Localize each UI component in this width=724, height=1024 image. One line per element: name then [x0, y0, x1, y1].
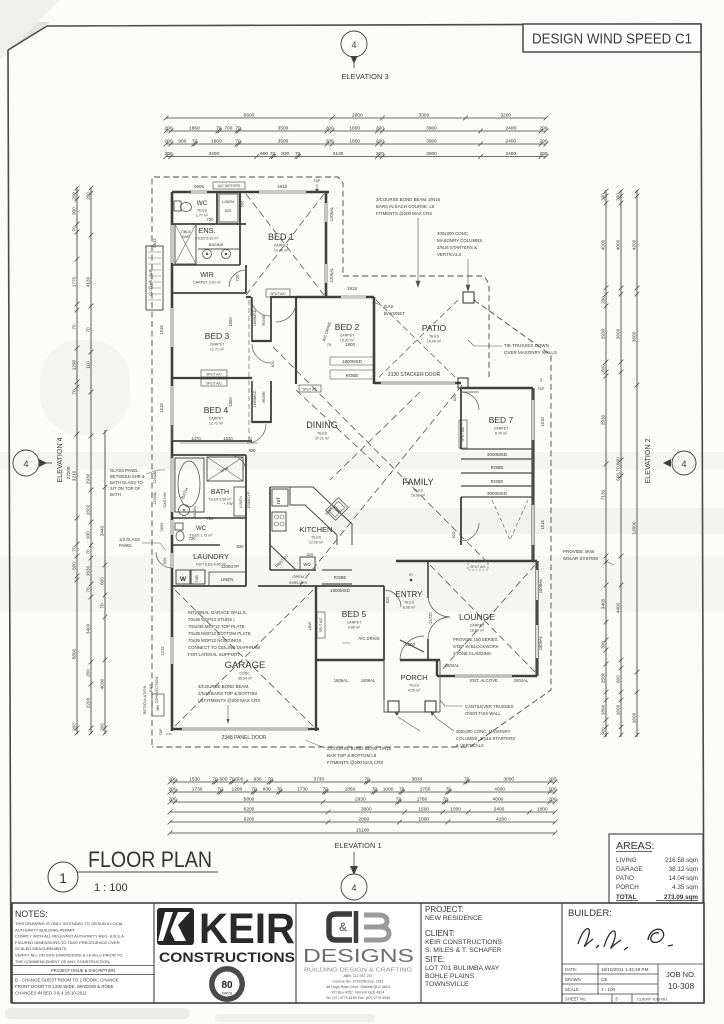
svg-text:4: 4: [351, 40, 356, 50]
svg-text:3/COURSE BOND BEAM.: 3/COURSE BOND BEAM.: [198, 684, 249, 689]
svg-text:900: 900: [600, 727, 605, 735]
label open shelves: [289, 574, 307, 585]
svg-text:200: 200: [539, 151, 547, 157]
door arc wir: [229, 270, 246, 287]
label 1800MSD bed2: [330, 357, 374, 365]
note 1/3 glass panel: [119, 537, 166, 551]
svg-text:CONSTRUCTIONS: CONSTRUCTIONS: [159, 950, 295, 965]
svg-text:200: 200: [164, 151, 172, 157]
elevation marker 3 (top): [341, 31, 389, 81]
svg-text:8.79 m²: 8.79 m²: [495, 432, 508, 436]
svg-text:CLIENT JOB NO.: CLIENT JOB NO.: [637, 997, 668, 1002]
svg-text:1860: 1860: [345, 786, 356, 792]
dimension column right inner: [600, 189, 608, 738]
svg-text:BATH GLASS TO: BATH GLASS TO: [110, 480, 144, 485]
wall BED1 right with 1206AL windows: [325, 192, 328, 297]
svg-text:7130: 7130: [600, 489, 605, 500]
svg-text:CLOTHS LINE: CLOTHS LINE: [148, 269, 153, 296]
svg-text:200: 200: [71, 723, 76, 731]
masonry column patio SE: [458, 378, 468, 388]
svg-text:CLIENT:: CLIENT:: [425, 929, 455, 938]
masonry column patio NE: [463, 292, 474, 303]
wall robe divider kitchen/bed5: [322, 570, 352, 584]
svg-text:BED 2: BED 2: [335, 322, 360, 332]
label 300x300 conc columns porch: [394, 711, 515, 748]
svg-text:3600: 3600: [615, 328, 620, 339]
svg-text:1800: 1800: [228, 397, 233, 407]
svg-text:ENT. ALCOVE: ENT. ALCOVE: [470, 678, 498, 683]
dimension row bottom 6: [168, 827, 558, 835]
svg-text:4: 4: [681, 459, 686, 469]
svg-text:200: 200: [164, 138, 172, 144]
svg-text:L8 FITMENTS @200 MAX CRS: L8 FITMENTS @200 MAX CRS: [198, 698, 260, 703]
porch slab outline: [384, 660, 440, 712]
svg-text:3300: 3300: [419, 112, 430, 118]
svg-text:SCALED MEASUREMENTS.: SCALED MEASUREMENTS.: [15, 946, 68, 951]
svg-text:CARPET: CARPET: [210, 343, 225, 347]
svg-text:70: 70: [235, 125, 241, 131]
svg-text:3: 3: [615, 997, 618, 1002]
svg-text:70: 70: [323, 786, 329, 792]
svg-text:8.06 m²: 8.06 m²: [403, 606, 416, 610]
svg-text:ref: ref: [276, 497, 282, 504]
wall BED7/BED6 right with windows: [531, 388, 534, 561]
svg-text:DESIGN WIND SPEED C1: DESIGN WIND SPEED C1: [532, 32, 692, 48]
svg-text:500: 500: [235, 776, 243, 782]
svg-text:BUILDING DESIGN & CRAFTING: BUILDING DESIGN & CRAFTING: [304, 968, 412, 974]
room label ENTRY: [396, 590, 424, 610]
door arcs lounge double: [428, 595, 450, 639]
svg-text:70: 70: [372, 786, 378, 792]
svg-text:3210: 3210: [71, 470, 76, 481]
svg-text:720: 720: [207, 217, 215, 222]
svg-text:200: 200: [85, 669, 90, 677]
label AC MOTORS box: [213, 182, 245, 189]
svg-text:WO: WO: [303, 562, 311, 567]
svg-text:CE: CE: [601, 977, 607, 982]
svg-text:DRAWN:: DRAWN:: [565, 977, 582, 982]
svg-text:600: 600: [240, 200, 245, 207]
svg-text:600: 600: [71, 562, 76, 570]
label split ac bed2: [266, 289, 290, 297]
note 3course bond beam top: [376, 197, 441, 287]
porch column SW: [388, 701, 399, 712]
label ir dot: [409, 573, 413, 581]
svg-text:1: 1: [59, 870, 67, 886]
svg-text:KITCHEN: KITCHEN: [300, 525, 333, 534]
svg-text:LOUNGE: LOUNGE: [459, 612, 495, 622]
svg-text:TILES 6.56 m²: TILES 6.56 m²: [208, 498, 232, 502]
svg-text:70: 70: [399, 786, 405, 792]
door arc bed6: [461, 523, 479, 541]
svg-text:CANTILEVER TRUSSES: CANTILEVER TRUSSES: [465, 704, 514, 709]
svg-text:200: 200: [376, 125, 384, 131]
svg-text:BED 4: BED 4: [204, 405, 229, 415]
wall bath/laundry east: [245, 455, 247, 586]
wall porch west column line: [383, 660, 385, 700]
svg-text:70x2/35 MGP12 TOP PLATE: 70x2/35 MGP12 TOP PLATE: [188, 624, 245, 629]
svg-text:OVER MASONRY WALLS: OVER MASONRY WALLS: [504, 350, 557, 355]
svg-text:5800: 5800: [244, 796, 255, 802]
note 300x300 conc columns top: [437, 231, 483, 291]
svg-text:TOTAL: TOTAL: [616, 894, 637, 901]
svg-text:1200GYP: 1200GYP: [221, 564, 239, 569]
svg-text:GARAGE: GARAGE: [616, 866, 643, 873]
svg-text:200: 200: [376, 151, 384, 157]
svg-text:CARPET: CARPET: [209, 417, 224, 421]
svg-text:BATH: BATH: [211, 489, 229, 496]
wall entry/lounge divider: [427, 561, 429, 660]
svg-text:ABN: 112 937 297: ABN: 112 937 297: [343, 974, 372, 978]
svg-text:ROBE: ROBE: [334, 575, 347, 580]
svg-text:TIE TRUSSES DOWN: TIE TRUSSES DOWN: [504, 343, 549, 348]
truss dashed X living area: [273, 347, 490, 585]
svg-text:1290: 1290: [71, 359, 76, 370]
svg-text:1804AL: 1804AL: [445, 663, 460, 668]
label reticulation gas connection: [142, 676, 159, 714]
svg-text:70: 70: [71, 226, 76, 232]
roof outline dashed: [152, 177, 551, 747]
svg-text:1204AL: 1204AL: [153, 491, 157, 504]
svg-text:ROBE: ROBE: [261, 314, 266, 326]
svg-text:SPLIT A/C: SPLIT A/C: [206, 372, 222, 376]
svg-text:1600: 1600: [631, 712, 636, 723]
svg-text:CARPET: CARPET: [470, 624, 485, 628]
room label WC ens: [196, 200, 209, 218]
svg-text:JOB NO.: JOB NO.: [666, 970, 696, 979]
svg-text:2348 PANEL DOOR: 2348 PANEL DOOR: [222, 735, 267, 741]
svg-text:2500: 2500: [600, 672, 605, 683]
svg-text:3600: 3600: [631, 331, 636, 342]
svg-text:BETWEEN SHR &: BETWEEN SHR &: [110, 474, 145, 479]
svg-text:INTERNAL GARAGE WALLS,: INTERNAL GARAGE WALLS,: [188, 610, 247, 615]
fixture pantry: [270, 545, 296, 570]
svg-text:1760: 1760: [420, 786, 431, 792]
svg-text:LOT 701 BULIMBA WAY: LOT 701 BULIMBA WAY: [425, 965, 500, 972]
dimension row bottom 1: [168, 776, 558, 784]
robe bed4 bottom wall: [252, 421, 271, 423]
svg-text:3/COURSE BOND BEAM. 2/N16: 3/COURSE BOND BEAM. 2/N16: [376, 197, 441, 202]
svg-text:15100: 15100: [356, 827, 370, 833]
svg-text:70: 70: [268, 776, 274, 782]
title box DESIGN WIND SPEED C1: [523, 24, 701, 52]
svg-text:CONNECTION: CONNECTION: [154, 676, 159, 703]
svg-text:700: 700: [224, 125, 232, 131]
svg-text:TILES: TILES: [404, 601, 415, 605]
svg-text:70: 70: [99, 603, 104, 609]
svg-text:35.34 m²: 35.34 m²: [238, 677, 253, 681]
wall ENS bottom: [172, 264, 240, 266]
room label BED 1: [268, 232, 294, 253]
svg-text:1206AL: 1206AL: [329, 267, 334, 282]
elevation marker 1 (bottom): [334, 841, 381, 900]
wall lounge right with windows: [535, 561, 538, 676]
svg-text:WIR: WIR: [200, 272, 214, 279]
dimension column right outer: [631, 189, 639, 738]
svg-text:ENS.: ENS.: [198, 226, 216, 235]
label mb box: [152, 694, 164, 716]
svg-text:OPEN: OPEN: [292, 574, 303, 579]
svg-text:LBW: LBW: [307, 621, 312, 630]
svg-text:NEW RESIDENCE: NEW RESIDENCE: [425, 915, 483, 922]
svg-text:FITMENTS @200 MAX CRS: FITMENTS @200 MAX CRS: [327, 760, 383, 765]
wall bed5 robe row: [316, 585, 384, 587]
dimension column right middle: [615, 189, 623, 738]
note internal garage walls: [188, 610, 260, 657]
svg-text:DATE:: DATE:: [565, 967, 577, 972]
fixture double shower: [175, 224, 196, 264]
project panel: [425, 905, 503, 988]
svg-text:CARPET: CARPET: [494, 427, 509, 431]
svg-text:W: W: [180, 576, 187, 583]
svg-text:70: 70: [327, 342, 332, 347]
svg-text:RETICULATION: RETICULATION: [142, 685, 147, 714]
svg-text:820: 820: [270, 360, 275, 367]
room label PATIO: [422, 323, 447, 344]
wall laundry bottom / garage top: [172, 585, 316, 587]
svg-text:4000: 4000: [615, 239, 620, 250]
svg-text:720: 720: [207, 516, 215, 521]
svg-text:LINEN: LINEN: [221, 577, 233, 582]
svg-text:620: 620: [225, 208, 232, 213]
wall garage right: [315, 586, 317, 731]
svg-text:820: 820: [307, 552, 314, 557]
label 1204AL bath window: [153, 470, 157, 504]
label tie trusses: [468, 340, 557, 355]
svg-text:CARPET: CARPET: [274, 244, 289, 248]
fixture laundry tub and washer: [176, 570, 205, 584]
label split ac bed7: [459, 420, 467, 448]
svg-text:300x300 CONC. MASONRY: 300x300 CONC. MASONRY: [456, 729, 511, 734]
svg-text:SHEET No.: SHEET No.: [565, 997, 587, 1002]
svg-text:12.71 m²: 12.71 m²: [209, 422, 224, 426]
svg-text:2130 STACKER DOOR: 2130 STACKER DOOR: [388, 372, 441, 378]
dimension column left inner: [99, 430, 107, 736]
svg-text:MB: MB: [155, 705, 160, 711]
door arc bed7: [461, 392, 479, 410]
svg-text:2400: 2400: [494, 806, 505, 812]
svg-text:BED 1: BED 1: [268, 232, 294, 242]
svg-text:CONNECT TO CEILING DIAPHRAM: CONNECT TO CEILING DIAPHRAM: [188, 645, 260, 650]
dimension column left middle: [85, 186, 93, 736]
svg-text:PO Box 4257, Vincent QLD 4814: PO Box 4257, Vincent QLD 4814: [332, 991, 385, 995]
wall hall robes x271: [270, 297, 272, 423]
svg-text:4000: 4000: [494, 786, 505, 792]
date drawn scale sheet table: [562, 964, 704, 1003]
svg-text:3000: 3000: [361, 806, 372, 812]
svg-text:14.04 m²: 14.04 m²: [427, 340, 442, 344]
svg-text:BED 5: BED 5: [342, 609, 367, 619]
svg-text:THIS DRAWING IS ONLY INTENDED: THIS DRAWING IS ONLY INTENDED TO OBTAIN …: [15, 921, 124, 926]
svg-text:BASINS: BASINS: [209, 242, 224, 247]
svg-text:38.12 sqm: 38.12 sqm: [669, 866, 698, 873]
svg-text:14.46 m²: 14.46 m²: [274, 249, 289, 253]
svg-text:PATIO: PATIO: [616, 875, 634, 882]
door arc bath: [229, 455, 246, 470]
label split ac bed5: [317, 612, 325, 638]
svg-text:4200: 4200: [631, 239, 636, 250]
svg-text:70: 70: [365, 776, 371, 782]
svg-text:3830: 3830: [412, 776, 423, 782]
wall bed6 west: [460, 388, 462, 545]
svg-text:1000: 1000: [383, 786, 394, 792]
svg-text:TAP: TAP: [159, 728, 163, 735]
door arc bed1: [251, 297, 270, 316]
svg-text:LINEN: LINEN: [222, 199, 234, 204]
svg-text:600: 600: [600, 364, 605, 372]
svg-text:FLOOR PLAN: FLOOR PLAN: [88, 847, 212, 872]
svg-text:200: 200: [600, 296, 605, 304]
wall BED7 top: [461, 387, 533, 390]
svg-text:DINING: DINING: [306, 420, 338, 430]
svg-text:600,70,600: 600,70,600: [615, 457, 620, 481]
door front 1200: [400, 636, 424, 660]
svg-text:1500: 1500: [85, 504, 90, 515]
room label BED 3: [205, 331, 230, 352]
dimension row bottom 2: [168, 786, 558, 794]
svg-text:3130: 3130: [333, 151, 344, 157]
svg-text:1770: 1770: [71, 276, 76, 287]
svg-text:70: 70: [85, 327, 90, 333]
svg-text:BUILDER:: BUILDER:: [568, 908, 612, 919]
label 1800 bed2: [327, 342, 356, 347]
svg-text:1808AL: 1808AL: [538, 578, 543, 593]
svg-text:PROVIDE 150 SERIES: PROVIDE 150 SERIES: [453, 637, 498, 642]
svg-text:THE COMMENCEMENT OF ANY CONSTR: THE COMMENCEMENT OF ANY CONSTRUCTION.: [15, 959, 110, 964]
svg-text:&: &: [339, 922, 347, 934]
svg-text:1806AL: 1806AL: [334, 678, 349, 683]
note 2course bond beam bottom: [305, 740, 392, 765]
wall entry alcove south: [437, 675, 537, 677]
label ac drain bed5: [342, 636, 380, 643]
svg-text:273.09 sqm: 273.09 sqm: [664, 894, 698, 901]
room label WC2: [189, 526, 213, 538]
svg-text:70: 70: [192, 138, 198, 144]
builder panel with signatures: [568, 908, 673, 950]
wall kitchen west: [269, 487, 271, 570]
svg-text:300: 300: [600, 641, 605, 649]
label split ac bed2 lower: [299, 385, 321, 392]
areas summary box: [609, 834, 703, 905]
svg-text:600: 600: [219, 776, 227, 782]
svg-text:12000: 12000: [631, 521, 636, 534]
svg-text:COLUMNS, 2/N16 STARTERS: COLUMNS, 2/N16 STARTERS: [456, 736, 515, 741]
label dble shr: [181, 230, 191, 239]
svg-text:2930: 2930: [600, 328, 605, 339]
svg-text:BASIN: BASIN: [192, 506, 197, 518]
svg-text:70: 70: [216, 125, 222, 131]
svg-text:1206AL: 1206AL: [329, 206, 334, 221]
svg-text:1530: 1530: [223, 436, 233, 441]
label 1470 1530 dims bath: [180, 436, 258, 443]
dimension row top 3: [164, 138, 549, 146]
svg-text:1 : 100: 1 : 100: [94, 882, 128, 894]
svg-text:VERTICALS: VERTICALS: [437, 252, 461, 257]
wall front entry/bed5 south: [316, 660, 440, 676]
truss dashed X patio: [376, 300, 458, 380]
svg-text:SOLAR SYSTEM: SOLAR SYSTEM: [563, 556, 598, 561]
svg-text:3000MSD: 3000MSD: [487, 491, 508, 496]
svg-text:A/C DRAIN: A/C DRAIN: [358, 636, 379, 641]
svg-text:ROBE: ROBE: [491, 465, 504, 470]
svg-text:1660: 1660: [211, 138, 222, 144]
svg-text:1800MSD: 1800MSD: [342, 359, 363, 364]
wall BED4 bottom: [172, 440, 252, 442]
svg-text:FRONT DOOR TO 1200 WIDE, WINDO: FRONT DOOR TO 1200 WIDE, WINDOW & ROBE: [15, 984, 114, 989]
truss dashed X bed1: [246, 194, 324, 295]
svg-text:70: 70: [396, 796, 402, 802]
svg-text:AUTHORITY BUILDING PERMIT.: AUTHORITY BUILDING PERMIT.: [15, 927, 76, 932]
svg-text:FOR LATERAL SUPPORT: FOR LATERAL SUPPORT: [188, 652, 240, 657]
svg-text:600: 600: [260, 151, 268, 157]
wall BED3/BED4 divider: [172, 377, 252, 379]
label provide 150 series: [453, 637, 499, 656]
note glass panel: [110, 468, 165, 497]
svg-text:1800MSD: 1800MSD: [253, 309, 257, 326]
svg-text:SPLIT A/C: SPLIT A/C: [206, 381, 222, 385]
svg-text:3400: 3400: [208, 151, 219, 157]
fixture linen laundry: [209, 572, 246, 586]
svg-text:300x300 CONC.: 300x300 CONC.: [437, 231, 469, 236]
elevation marker 4 (left): [13, 437, 71, 482]
svg-text:LINEN: LINEN: [238, 496, 243, 508]
svg-text:80: 80: [221, 980, 233, 991]
svg-text:WC: WC: [196, 526, 207, 532]
label TAP top: [314, 179, 321, 193]
dimension row bottom 3: [168, 796, 558, 804]
svg-text:S. MILES & T. SCHAFER: S. MILES & T. SCHAFER: [425, 947, 502, 954]
svg-text:PROVIDE 4KW: PROVIDE 4KW: [563, 549, 595, 554]
svg-text:70: 70: [251, 786, 257, 792]
svg-text:ELEVATION 2: ELEVATION 2: [643, 438, 652, 483]
svg-text:TILES: TILES: [409, 684, 420, 688]
svg-text:3000: 3000: [503, 776, 514, 782]
svg-text:300: 300: [615, 193, 620, 201]
svg-text:6600: 6600: [244, 112, 255, 118]
title block frame: [12, 903, 704, 1003]
svg-text:FIGURED DIMENSIONS TO TAKE PRE: FIGURED DIMENSIONS TO TAKE PRECEDENCE OV…: [15, 940, 120, 945]
svg-text:4000: 4000: [600, 239, 605, 250]
fixture basin bath: [179, 505, 198, 519]
drawing title FLOOR PLAN: [48, 847, 218, 894]
svg-text:FAMILY: FAMILY: [402, 477, 433, 487]
svg-text:+ FW: + FW: [223, 502, 233, 506]
svg-text:3900: 3900: [426, 151, 437, 157]
svg-text:70: 70: [235, 138, 241, 144]
svg-text:SHELVES: SHELVES: [289, 580, 307, 585]
truss dashed X garage: [175, 590, 313, 726]
label split ac bed4: [201, 379, 227, 386]
svg-text:4130: 4130: [85, 276, 90, 287]
svg-text:200: 200: [71, 192, 76, 200]
svg-text:70: 70: [277, 786, 283, 792]
svg-text:1518: 1518: [159, 403, 164, 413]
svg-text:1518: 1518: [159, 325, 164, 335]
svg-text:A/C MOTORS: A/C MOTORS: [218, 184, 241, 188]
svg-text:70: 70: [270, 151, 276, 157]
svg-text:1800MSD: 1800MSD: [330, 588, 351, 593]
svg-text:2/N16 BARS TOP & BOTTOM: 2/N16 BARS TOP & BOTTOM: [198, 691, 257, 696]
svg-text:1730: 1730: [297, 786, 308, 792]
room label GARAGE: [225, 660, 266, 681]
svg-text:200: 200: [548, 776, 556, 782]
svg-text:1260: 1260: [232, 786, 243, 792]
svg-text:SCALE:: SCALE:: [565, 987, 580, 992]
svg-text:STEP IN BLOCKWORK: STEP IN BLOCKWORK: [453, 644, 499, 649]
svg-text:TILES: TILES: [311, 536, 322, 540]
svg-text:PROJECT:: PROJECT:: [425, 905, 464, 914]
wall wc bottom: [172, 544, 220, 546]
